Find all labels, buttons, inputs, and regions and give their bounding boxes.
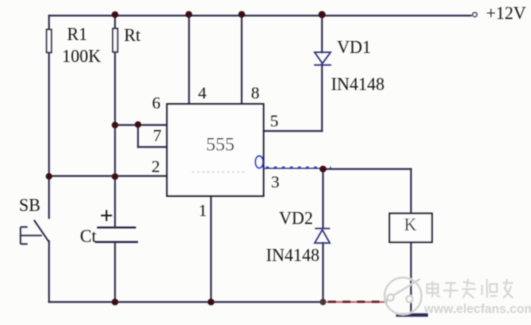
watermark gray glyph strokes (427, 279, 513, 298)
wire SB bottom lead to bottom rail (48, 241, 50, 302)
svg-text:2: 2 (152, 157, 161, 176)
svg-text:Ct: Ct (80, 226, 97, 246)
svg-text:555: 555 (206, 135, 235, 156)
wire VD1 cathode lead down to pin 5 (321, 64, 323, 131)
svg-text:8: 8 (251, 84, 260, 103)
wire pin 7 discharge vertical (137, 125, 139, 147)
svg-text:Rt: Rt (124, 25, 141, 45)
node pin 2 left junction (46, 173, 53, 180)
wire Rt top lead (114, 16, 116, 29)
faint artifact line inside 555 box (192, 171, 245, 173)
svg-text:100K: 100K (62, 46, 101, 66)
svg-text:VD1: VD1 (337, 37, 371, 57)
node pin 3 output junction (320, 166, 327, 173)
capacitor Ct plates (95, 228, 138, 243)
wire pin 3 output thin base (264, 167, 323, 169)
label Ct polarity plus sign (101, 210, 112, 221)
op-amp U1 555 timer box (167, 104, 264, 196)
node VD2 bottom junction (320, 299, 326, 305)
node pin 7 branch junction (135, 121, 142, 128)
node pin 8 rail junction (238, 11, 245, 18)
svg-text:SB: SB (19, 195, 40, 215)
wire pin 5 control horizontal (264, 130, 322, 132)
wire pin 1 ground lead (210, 196, 212, 302)
wire +12V top supply rail (49, 15, 471, 17)
svg-text:VD2: VD2 (279, 208, 313, 228)
ground (396, 313, 428, 317)
wire Rt bottom lead down to Ct (114, 52, 116, 227)
svg-text:4: 4 (198, 84, 207, 103)
resistor R1 body (47, 30, 52, 53)
wire relay K top lead (410, 169, 412, 212)
switch SB pushbutton (21, 220, 50, 244)
node pin 1 bottom junction (208, 299, 215, 306)
svg-text:5: 5 (270, 112, 279, 131)
resistor Rt body (113, 29, 118, 53)
wire pin 3 output to relay (323, 168, 411, 170)
node VD1 rail junction (318, 11, 325, 18)
node pin 4 rail junction (185, 11, 192, 18)
wire VD1 anode lead up to rail (321, 16, 323, 53)
svg-text:IN4148: IN4148 (331, 74, 385, 94)
svg-text:+12V: +12V (486, 3, 526, 23)
svg-text:www.elecfans.com: www.elecfans.com (423, 302, 531, 316)
svg-text:R1: R1 (67, 24, 87, 44)
node Ct bottom junction (112, 299, 119, 306)
svg-text:3: 3 (271, 173, 280, 192)
wire pin 2 trigger (49, 175, 167, 177)
node pin 6 junction (112, 122, 119, 129)
wire pin 8 Vcc to rail (241, 16, 243, 104)
wire pin 4 reset to rail (188, 16, 190, 104)
wire R1 top lead (48, 16, 50, 30)
watermark logo circle (385, 278, 422, 315)
svg-text:6: 6 (152, 94, 161, 113)
wire relay K bottom lead to ground (410, 242, 412, 314)
wire bottom rail red dashed segment (327, 301, 388, 303)
node Rt top junction (112, 11, 119, 18)
wire ground bottom rail (49, 301, 324, 303)
wire Ct bottom lead to bottom rail (114, 242, 116, 302)
wire pin 3 blue dashed overlay (266, 167, 331, 169)
diode VD1 (314, 52, 331, 65)
svg-text:IN4148: IN4148 (266, 245, 320, 265)
wire VD2 cathode lead up to node (322, 169, 324, 228)
wire pin 6 threshold (115, 124, 167, 126)
diode VD2 (315, 229, 330, 244)
wire pin 7 discharge horizontal (138, 146, 167, 148)
wire VD2 anode lead down to rail (322, 243, 324, 302)
wire R1 bottom lead down to SB (48, 51, 50, 218)
node +12V terminal circle (473, 13, 477, 17)
svg-text:1: 1 (199, 201, 208, 220)
svg-text:K: K (404, 215, 417, 235)
relay K box (390, 213, 433, 242)
svg-text:7: 7 (153, 126, 162, 145)
node pin 3 blue loop mark (255, 156, 263, 168)
node pin 2 mid junction (112, 173, 119, 180)
